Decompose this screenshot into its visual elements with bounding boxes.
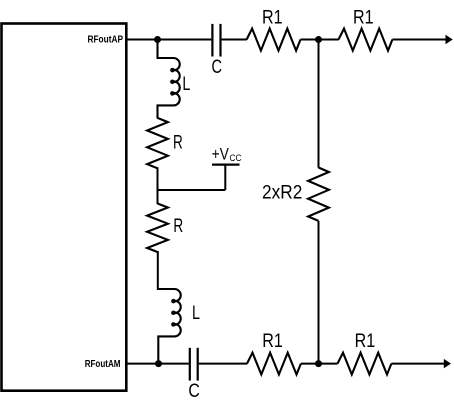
capacitor C (bottom series), plates — [190, 348, 198, 381]
svg-text:R1: R1 — [355, 331, 376, 352]
resistor R1 (bottom-right) — [338, 353, 392, 375]
wire: 2xR2 down to bottom node — [318, 221, 320, 364]
node: top junction with 2xR2 — [315, 36, 322, 43]
node: bottom junction with 2xR2 — [315, 360, 322, 367]
wire: R1 to output arrow (bottom) — [391, 363, 444, 365]
wire: center node to Vcc riser — [157, 189, 226, 191]
svg-text:R: R — [173, 133, 183, 154]
svg-text:L: L — [192, 303, 200, 324]
svg-text:R: R — [173, 216, 183, 237]
wire: R1 to node (top) — [301, 39, 339, 41]
wire: R to center node — [157, 167, 159, 204]
wire: C to R1 (bottom-left) — [199, 363, 247, 365]
wire: C to R1 (top-left) — [222, 39, 247, 41]
wire: R to inductor L (bottom) — [157, 251, 159, 290]
svg-text:2xR2: 2xR2 — [262, 183, 302, 204]
arrow: top output — [446, 35, 453, 44]
node: junction of RFoutAP wire and shunt L — [154, 36, 161, 43]
svg-text:R1: R1 — [353, 7, 374, 28]
resistor R1 (top-right) — [339, 29, 393, 51]
svg-text:RFoutAP: RFoutAP — [88, 35, 124, 46]
resistor 2xR2 (shunt) — [308, 168, 329, 221]
node: junction of RFoutAM wire and shunt L — [155, 360, 162, 367]
wire: R1 to node (bottom) — [301, 363, 338, 365]
svg-text:C: C — [212, 57, 223, 78]
resistor R1 (top-left) — [247, 29, 301, 51]
resistor R (bottom bias) — [147, 204, 168, 253]
resistor R1 (bottom-left) — [247, 353, 301, 375]
power symbol +Vcc bar — [212, 164, 240, 166]
svg-text:CC: CC — [230, 153, 242, 164]
svg-text:R1: R1 — [262, 331, 283, 352]
arrow: bottom output — [444, 359, 451, 368]
inductor L (top shunt) with lead from junction — [158, 40, 180, 119]
svg-text:L: L — [182, 74, 190, 95]
wire: R1 to output arrow (top) — [392, 39, 446, 41]
wire: Vcc riser — [224, 164, 226, 190]
IC block U1 — [2, 24, 127, 391]
inductor L (bottom shunt) — [158, 289, 181, 364]
wire: top node down to 2xR2 — [318, 40, 320, 168]
svg-text:C: C — [188, 381, 200, 402]
svg-text:RFoutAM: RFoutAM — [85, 359, 121, 370]
svg-text:+V: +V — [212, 146, 229, 164]
svg-text:R1: R1 — [262, 8, 283, 29]
wire: RFoutAM pin to capacitor C (bottom) — [127, 363, 189, 365]
resistor R (top bias) — [147, 118, 168, 168]
capacitor C (top series), plates — [212, 24, 220, 57]
wire: RFoutAP pin to capacitor C (top) — [127, 39, 211, 41]
